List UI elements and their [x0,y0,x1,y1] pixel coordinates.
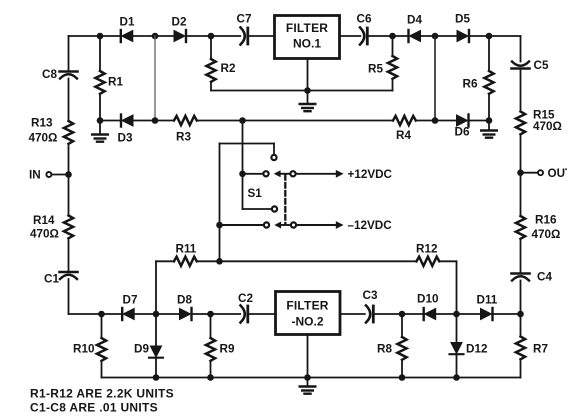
svg-text:R8: R8 [377,343,392,356]
wire top rail [69,35,521,37]
svg-text:R10: R10 [73,343,95,356]
svg-text:NO.1: NO.1 [293,37,321,51]
svg-text:R6: R6 [463,78,478,91]
svg-text:C2: C2 [238,292,253,305]
ground under R1 [92,121,108,142]
svg-text:IN: IN [29,169,41,182]
svg-text:C3: C3 [363,289,378,302]
svg-text:D4: D4 [407,14,422,27]
svg-text:C4: C4 [537,271,552,284]
svg-text:-NO.2: -NO.2 [291,315,323,329]
resistor R9 [206,314,235,378]
svg-text:C1: C1 [44,273,59,286]
wire link D4-D5 junction to R4-D6 row [434,36,436,121]
svg-text:D12: D12 [466,343,488,356]
capacitor C1 [44,272,78,286]
svg-text:R16: R16 [535,214,557,227]
svg-text:C7: C7 [237,13,252,26]
wire D3-R3-R4-D6 row [100,120,489,122]
diode D10 [417,293,439,321]
svg-text:R5: R5 [368,63,383,76]
diode D11 [477,294,498,321]
svg-text:R4: R4 [396,129,411,142]
wire right rail [520,36,522,314]
svg-text:D9: D9 [134,343,149,356]
junction R11 row node [216,258,223,265]
svg-text:470Ω: 470Ω [30,228,59,241]
resistor R12 [416,243,439,266]
svg-text:FILTER: FILTER [286,299,328,313]
svg-text:R1-R12 ARE 2.2K UNITS: R1-R12 ARE 2.2K UNITS [30,386,174,400]
diode D2 [172,16,187,43]
resistor R8 [377,314,407,378]
node +12VDC supply [296,168,392,181]
switch S1 [216,121,296,262]
resistor R7 [516,314,548,378]
svg-text:D3: D3 [118,132,133,145]
svg-text:R11: R11 [176,243,197,256]
svg-text:D11: D11 [477,294,498,307]
resistor R2 [206,36,236,91]
capacitor C8 [42,68,78,81]
junction node filter1 ground [304,87,311,94]
wire left rail [68,36,70,314]
wire bottom return bus [102,377,521,379]
diode D5 [455,13,470,43]
resistor R13 [29,117,74,145]
svg-text:R1: R1 [108,76,123,89]
svg-text:470Ω: 470Ω [532,228,561,241]
resistor R5 [368,36,397,91]
svg-text:R7: R7 [533,343,548,356]
junction D3 row nodes [97,117,493,124]
filter U1 FILTER NO.1 box [275,16,340,59]
wire link D1-D2 junction to D3 row [154,36,156,121]
svg-text:C8: C8 [42,68,57,81]
resistor R16 [516,214,560,242]
svg-text:FILTER: FILTER [286,21,328,35]
svg-text:470Ω: 470Ω [29,132,58,145]
capacitor C7 [237,13,252,45]
ground under filter1 [300,104,316,111]
resistor R14 [30,214,73,241]
resistor R6 [463,36,494,121]
filter U2 FILTER NO.2 box [276,292,341,335]
svg-text:D7: D7 [123,294,138,307]
wire filter1 ground stem [307,59,309,105]
svg-text:C6: C6 [357,13,372,26]
capacitor C3 [363,289,378,323]
svg-text:D8: D8 [177,294,192,307]
junction bottom row nodes [98,311,524,318]
wire R11-R12 row [156,261,457,314]
diode D6 [455,115,470,139]
svg-text:D6: D6 [455,126,470,139]
svg-text:OUT: OUT [548,167,567,180]
svg-text:R2: R2 [221,62,236,75]
ground under filter2 [300,387,316,394]
junction bottom bus nodes [153,374,460,381]
diode D9 [134,314,163,378]
ground under R6-D6 [481,121,497,138]
svg-text:D5: D5 [455,13,470,26]
svg-text:R12: R12 [416,243,438,256]
capacitor C4 [512,271,553,284]
svg-text:R14: R14 [33,214,55,227]
capacitor C6 [357,13,372,45]
diode D7 [122,294,137,321]
resistor R1 [95,36,123,121]
diode D3 [118,115,134,145]
svg-text:D10: D10 [417,293,439,306]
svg-text:R9: R9 [220,343,235,356]
diode D12 [450,314,488,378]
resistor R10 [73,314,106,378]
wire R2-R5 ground bus [211,90,393,92]
diode D4 [407,14,422,43]
svg-text:S1: S1 [248,187,263,200]
svg-text:C1-C8 ARE .01 UNITS: C1-C8 ARE .01 UNITS [30,401,158,415]
wire filter2 ground stem [307,335,309,387]
capacitor C5 [512,59,549,72]
diode D8 [177,294,192,321]
node -12VDC supply [297,219,392,232]
capacitor C2 [238,292,253,323]
svg-text:D1: D1 [120,16,135,29]
node OUT terminal [517,167,567,180]
svg-text:R13: R13 [31,117,53,130]
svg-text:+12VDC: +12VDC [348,168,393,181]
resistor R4 [393,116,416,142]
node IN terminal [29,169,72,182]
svg-text:R3: R3 [176,131,191,144]
resistor R3 [174,116,197,144]
junction top rail nodes [97,33,493,40]
diode D1 [120,16,135,43]
resistor R15 [516,109,562,135]
svg-text:D2: D2 [172,16,187,29]
wire bottom diode row [69,313,521,315]
svg-text:–12VDC: –12VDC [348,219,393,232]
svg-text:C5: C5 [534,59,549,72]
resistor R11 [174,243,197,266]
svg-text:470Ω: 470Ω [533,120,562,133]
